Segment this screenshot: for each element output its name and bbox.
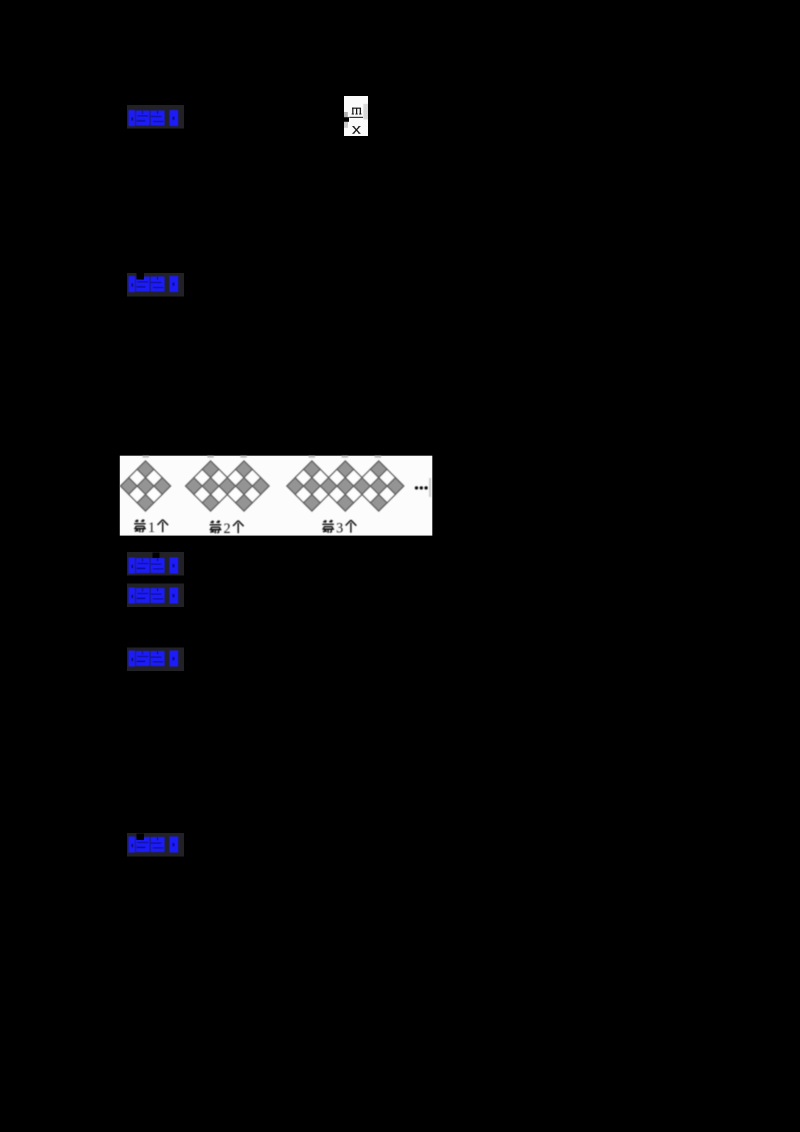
fraction left-top gray block — [344, 112, 348, 117]
blue label [fen xi] line 4 — [129, 588, 179, 604]
figure 3: three overlapping big diamonds — [287, 461, 337, 511]
label 2 halo — [127, 273, 184, 297]
fraction widget white box — [344, 96, 368, 136]
label 3 halo — [127, 552, 184, 576]
label 6 halo — [127, 833, 184, 857]
blue label [xiang jie] line 5 — [129, 651, 179, 667]
figure 1: one big diamond — [120, 461, 170, 511]
gray ticks above apexes — [143, 456, 382, 458]
svg-text:1: 1 — [148, 520, 155, 536]
fraction bar — [349, 117, 363, 118]
blue label [dian jing] line 2 — [129, 276, 179, 292]
caption di-1-ge — [134, 519, 168, 536]
caption di-2-ge — [210, 520, 244, 537]
gray bar at strip right edge — [429, 478, 431, 497]
label 5 halo — [127, 648, 184, 672]
white image strip — [120, 456, 433, 536]
label 4 halo — [127, 584, 184, 608]
blue label [da an] line 3 — [129, 558, 179, 574]
ellipsis dots — [415, 486, 428, 489]
label 1 halo — [127, 105, 184, 129]
fraction left-bottom gray block — [344, 122, 348, 128]
fraction right gray block — [363, 104, 368, 120]
numerator m (vector serif) — [352, 108, 362, 115]
dark notch in label 6 — [137, 834, 145, 841]
svg-text:3: 3 — [336, 521, 343, 537]
equals sign before fraction — [337, 117, 349, 122]
dark notch in label 2 — [137, 273, 145, 280]
blue label [xiang jie] line 1 — [129, 110, 179, 126]
denominator x (vector serif) — [353, 126, 359, 133]
blue label [dian jing] line 6 — [129, 837, 179, 853]
caption di-3-ge — [322, 520, 356, 537]
dark notch in label 3 — [153, 553, 160, 559]
figure 2: two overlapping big diamonds — [186, 461, 236, 511]
svg-text:2: 2 — [223, 521, 230, 537]
